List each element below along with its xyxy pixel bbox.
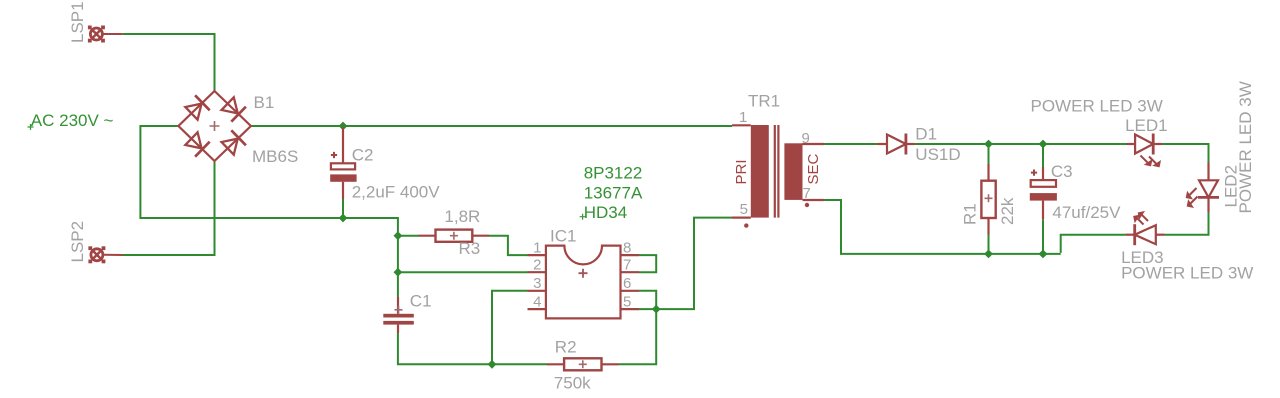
svg-text:B1: B1 [254,93,275,112]
svg-text:5: 5 [740,201,748,218]
svg-text:LSP2: LSP2 [68,221,87,263]
svg-text:IC1: IC1 [550,227,576,246]
svg-text:R3: R3 [459,239,481,258]
svg-text:7: 7 [803,185,811,202]
svg-text:R1: R1 [961,203,980,225]
svg-text:TR1: TR1 [748,92,780,111]
svg-text:R2: R2 [555,338,577,357]
svg-text:MB6S: MB6S [252,147,298,166]
svg-text:2,2uF 400V: 2,2uF 400V [352,183,441,202]
svg-text:8P3122: 8P3122 [584,163,643,182]
svg-text:13677A: 13677A [584,184,643,203]
svg-text:PRI: PRI [733,159,750,184]
svg-text:750k: 750k [554,373,591,392]
svg-text:LED1: LED1 [1125,116,1168,135]
svg-text:POWER LED 3W: POWER LED 3W [1031,97,1163,116]
svg-text:4: 4 [533,294,541,311]
svg-text:6: 6 [623,275,631,292]
svg-text:9: 9 [802,130,810,147]
svg-text:US1D: US1D [915,145,960,164]
svg-text:2: 2 [533,257,541,274]
svg-text:22k: 22k [998,197,1017,225]
svg-text:D1: D1 [915,125,937,144]
svg-text:1: 1 [739,109,747,126]
svg-text:7: 7 [623,257,631,274]
svg-text:C2: C2 [352,145,374,164]
svg-text:8: 8 [623,240,631,257]
svg-text:SEC: SEC [805,153,822,184]
svg-text:AC 230V ~: AC 230V ~ [31,111,114,130]
svg-text:HD34: HD34 [584,203,627,222]
svg-text:3: 3 [533,275,541,292]
svg-text:C3: C3 [1051,162,1073,181]
svg-text:1,8R: 1,8R [444,207,480,226]
svg-text:47uf/25V: 47uf/25V [1052,203,1121,222]
svg-text:POWER LED 3W: POWER LED 3W [1121,264,1253,283]
svg-text:POWER LED 3W: POWER LED 3W [1236,81,1255,213]
svg-text:5: 5 [623,294,631,311]
svg-text:LSP1: LSP1 [68,1,87,43]
svg-text:C1: C1 [410,292,432,311]
svg-text:1: 1 [533,240,541,257]
